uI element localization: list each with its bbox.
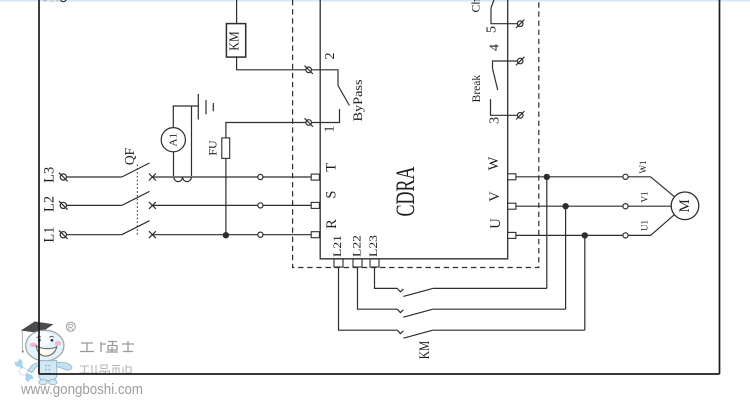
junction circle L1 (258, 232, 263, 237)
KM contact 2 blade (403, 309, 432, 317)
svg-text:L21: L21 (330, 235, 344, 257)
pin 5 terminal (517, 21, 523, 27)
terminal V1 (623, 204, 628, 209)
wire U output (516, 234, 623, 236)
pin 4 terminal (517, 58, 523, 64)
svg-text:KM: KM (417, 341, 433, 360)
svg-text:V1: V1 (640, 192, 650, 203)
svg-text:2: 2 (323, 53, 338, 60)
wire FU to L1 (225, 158, 227, 234)
wire V1 to motor (628, 205, 672, 207)
pin 3 terminal (517, 113, 523, 119)
QF contact cross L3 (149, 174, 156, 181)
pad L23 (370, 259, 379, 267)
svg-text:L1: L1 (42, 227, 58, 243)
junction circle L3 (258, 174, 263, 179)
svg-text:L3: L3 (42, 167, 58, 183)
svg-text:4: 4 (487, 44, 502, 51)
svg-text:S: S (324, 191, 340, 199)
QF blade pole L3 (122, 163, 150, 177)
KM contact 2 notch (397, 309, 403, 312)
wire pin4 stub (493, 61, 518, 68)
pad L22 (353, 259, 362, 267)
svg-text:U1: U1 (640, 220, 650, 231)
wire CT to ground net (191, 106, 193, 176)
svg-text:www.gongboshi.com: www.gongboshi.com (20, 382, 143, 398)
terminal L2 (60, 202, 66, 208)
junction W (544, 174, 550, 180)
ground (198, 94, 213, 120)
KM contact 3 notch (397, 330, 403, 333)
svg-text:3: 3 (487, 117, 502, 124)
left arm (28, 363, 39, 373)
wire L1 QF to R pad (152, 234, 311, 236)
body (39, 361, 57, 381)
wire L2 QF to S pad (152, 204, 311, 206)
eyes (38, 339, 41, 342)
junction U (582, 232, 588, 238)
wire W1 to motor (628, 177, 675, 198)
QF blade pole L2 (122, 191, 150, 205)
wire row2 to V riser (433, 308, 566, 310)
KM contact 1 blade (403, 288, 432, 296)
svg-text:M: M (677, 199, 693, 212)
pad U (508, 232, 516, 238)
terminal W1 (623, 174, 628, 179)
pad L21 (334, 259, 343, 267)
terminal U1 (623, 233, 628, 238)
svg-text:1: 1 (323, 126, 338, 133)
pad S (311, 202, 319, 208)
wire L2 to QF (66, 204, 122, 206)
pad R (311, 232, 319, 238)
riser V to row2 (565, 206, 567, 309)
pad V (508, 203, 516, 209)
svg-text:FU: FU (206, 140, 220, 156)
svg-text:R: R (324, 219, 340, 229)
pin 1 terminal (306, 120, 312, 126)
wire U1 to motor (628, 214, 675, 236)
wire L3 QF to T pad (152, 176, 311, 178)
pad W (508, 174, 516, 180)
right arm (57, 362, 72, 370)
svg-text:R: R (68, 323, 74, 332)
current transformer loops (174, 177, 192, 182)
wire W output (516, 176, 623, 178)
wire L23 down (375, 267, 398, 288)
junction FU-L1 (223, 232, 229, 238)
QF blade pole L1 (122, 221, 150, 235)
svg-text:W1: W1 (638, 161, 648, 174)
QF contact cross L1 (149, 231, 156, 238)
svg-text:L23: L23 (366, 235, 380, 257)
riser U to row3 (584, 235, 586, 330)
motor M (671, 192, 699, 220)
watermark logo gongboshi (12, 322, 143, 398)
terminal L3 (60, 174, 66, 180)
bypass blade (338, 86, 349, 106)
svg-text:U: U (488, 218, 504, 229)
svg-text:CDRA: CDRA (391, 166, 420, 216)
wire KM up (236, 0, 238, 24)
riser W to row1 (546, 177, 548, 289)
graduation cap (22, 322, 53, 333)
wire pin5 stub (491, 8, 517, 24)
KM contact 3 blade (403, 330, 432, 338)
wire L3 to QF (66, 176, 122, 178)
QF contact cross L2 (149, 202, 156, 209)
svg-text:Break: Break (471, 75, 483, 103)
wire row3 to U riser (433, 329, 585, 331)
ammeter A1 (161, 128, 185, 152)
pad T (311, 174, 319, 180)
cheeks (30, 343, 36, 348)
wire A1 to ground (173, 106, 198, 128)
pin 2 terminal (306, 67, 312, 73)
wire CT to A1 (173, 152, 175, 177)
wrench (12, 356, 36, 385)
head (26, 330, 64, 361)
svg-text:5: 5 (485, 26, 500, 33)
svg-text:V: V (487, 191, 503, 202)
svg-text:ByPass: ByPass (351, 79, 365, 121)
supply terminal stub top (60, 0, 66, 2)
wire V output (516, 205, 623, 207)
wire L22 down (358, 267, 398, 309)
junction V (562, 203, 568, 209)
svg-text:Ch: Ch (469, 0, 483, 13)
chinese sub strokes (industrial goods mall) (80, 365, 132, 374)
cutoff marks top (43, 0, 59, 2)
svg-text:L2: L2 (42, 196, 58, 212)
svg-text:A1: A1 (167, 133, 179, 146)
wire pin3 stub (491, 99, 518, 115)
buttons (45, 365, 47, 367)
svg-text:KM: KM (228, 31, 243, 51)
dashed enclosure (293, 0, 539, 268)
svg-text:L22: L22 (350, 235, 364, 257)
feet (39, 380, 47, 385)
KM contact 1 notch (397, 288, 403, 291)
soft starter CDRA box (320, 0, 508, 259)
wire FU to pin1 (226, 123, 306, 138)
wire KM to pin2 (237, 56, 306, 70)
svg-text:T: T (324, 163, 340, 172)
tassel (21, 330, 23, 351)
wire row1 to W riser (433, 287, 547, 289)
junction circle L2 (258, 203, 263, 208)
QF mechanical linkage (136, 165, 138, 237)
contactor coil KM (226, 24, 245, 58)
fuse FU (222, 138, 230, 159)
eyebrows (37, 336, 54, 337)
svg-text:W: W (486, 156, 502, 170)
mouth (36, 346, 57, 356)
break blade (493, 68, 498, 90)
wire pin1 stub (312, 109, 340, 123)
chinese brand strokes (gong bo shi) (80, 341, 134, 353)
registered mark (66, 322, 75, 331)
wire L21 down (339, 267, 398, 330)
wire L1 to QF (66, 234, 122, 236)
wire pin2 stub (312, 70, 339, 86)
terminal L1 (60, 232, 66, 238)
svg-text:QF: QF (122, 147, 137, 165)
blade Ch (491, 0, 494, 8)
